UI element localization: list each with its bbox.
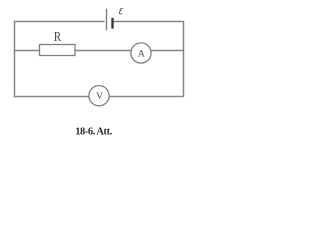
svg-text:ε: ε [119,2,123,18]
svg-text:18-6. Att.: 18-6. Att. [75,126,112,137]
svg-text:R: R [54,29,62,44]
svg-text:V: V [96,92,103,102]
svg-text:A: A [138,50,145,60]
